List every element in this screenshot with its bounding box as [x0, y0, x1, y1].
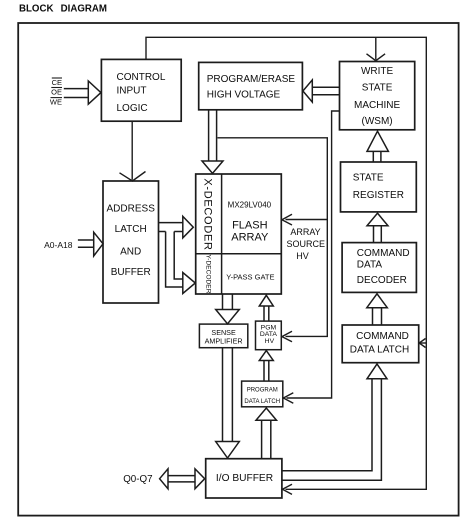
svg-text:HV: HV	[296, 251, 309, 261]
block SENSE AMPLIFIER	[199, 324, 247, 348]
hollow arrow ADDRESS LATCH to X-DECODER	[159, 216, 194, 238]
hollow arrow SENSE AMPLIFIER down to I/O BUFFER	[216, 348, 240, 458]
block ADDRESS LATCH AND BUFFER	[103, 181, 159, 303]
svg-text:Y-DECODER: Y-DECODER	[204, 255, 211, 294]
svg-text:PROGRAM/ERASE: PROGRAM/ERASE	[207, 74, 296, 85]
svg-text:ADDRESS: ADDRESS	[107, 204, 156, 215]
svg-text:WE: WE	[50, 98, 62, 107]
svg-text:HIGH VOLTAGE: HIGH VOLTAGE	[207, 89, 281, 100]
svg-text:COMMAND: COMMAND	[356, 331, 409, 342]
svg-text:SOURCE: SOURCE	[287, 239, 326, 249]
svg-text:MACHINE: MACHINE	[354, 100, 400, 111]
svg-text:COMMAND: COMMAND	[357, 248, 410, 259]
svg-text:LOGIC: LOGIC	[117, 103, 148, 114]
svg-text:DATA: DATA	[357, 260, 383, 271]
hollow arrow PROGRAM DATA LATCH up to PGM DATA HV	[259, 351, 273, 382]
hollow arrow bus I/O BUFFER right up to COMMAND DATA LATCH	[282, 364, 387, 480]
input labels CE OE WE with overbars	[50, 78, 62, 107]
svg-text:PROGRAM: PROGRAM	[247, 388, 278, 394]
svg-text:BUFFER: BUFFER	[111, 267, 151, 278]
svg-text:MX29LV040: MX29LV040	[228, 200, 272, 209]
svg-text:X-DECODER: X-DECODER	[202, 178, 214, 250]
svg-text:ARRAY: ARRAY	[231, 232, 269, 244]
label Y-PASS GATE	[226, 272, 274, 281]
svg-text:DECODER: DECODER	[357, 275, 407, 286]
block flash array composite (X-DECODER / FLASH ARRAY / Y-DECODER / Y-PASS GATE)	[196, 174, 282, 294]
hollow arrow Y-PASS GATE down to SENSE AMPLIFIER	[216, 294, 240, 324]
svg-text:HV: HV	[265, 338, 275, 345]
svg-text:STATE: STATE	[353, 172, 384, 183]
wire CONTROL INPUT LOGIC bottom to ADDRESS LATCH top	[120, 121, 146, 181]
svg-text:WRITE: WRITE	[361, 66, 394, 77]
svg-text:DATA LATCH: DATA LATCH	[350, 344, 409, 355]
svg-text:AND: AND	[120, 247, 141, 258]
label MX29LV040	[228, 200, 272, 209]
label X-DECODER (vertical)	[202, 178, 214, 250]
hollow arrow STATE REGISTER up to WSM	[367, 131, 388, 162]
block PGM DATA HV	[256, 321, 282, 350]
wire ARRAY SOURCE HV from PROGRAM/ERASE HV down to flash array and PGM DATA HV	[218, 138, 328, 342]
block CONTROL INPUT LOGIC	[101, 59, 181, 121]
wire branch into COMMAND DATA LATCH right edge	[419, 339, 426, 348]
label A0-A18	[44, 240, 73, 250]
svg-text:(WSM): (WSM)	[362, 116, 393, 127]
svg-text:AMPLIFIER: AMPLIFIER	[205, 337, 243, 346]
svg-text:CONTROL: CONTROL	[117, 72, 166, 83]
svg-text:BLOCK DIAGRAM: BLOCK DIAGRAM	[19, 3, 107, 14]
block WRITE STATE MACHINE (WSM)	[340, 62, 415, 130]
wire from CONTROL INPUT LOGIC top to WSM and down right side to I/O BUFFER	[146, 37, 426, 494]
hollow arrow PGM DATA HV up to flash array	[259, 295, 273, 321]
hollow arrow I/O BUFFER up to PROGRAM DATA LATCH	[256, 408, 277, 459]
label ARRAY SOURCE HV	[287, 227, 326, 261]
block COMMAND DATA DECODER	[342, 243, 416, 293]
svg-text:A0-A18: A0-A18	[44, 240, 73, 250]
hollow double arrow Q0-Q7 to I/O BUFFER	[160, 469, 205, 489]
label Y-DECODER (vertical)	[204, 255, 211, 294]
block STATE REGISTER	[341, 162, 417, 212]
title BLOCK DIAGRAM	[19, 3, 107, 14]
hollow arrow branch down to Y-DECODER	[166, 232, 196, 294]
block PROGRAM/ERASE HIGH VOLTAGE	[199, 62, 303, 109]
svg-text:INPUT: INPUT	[117, 86, 147, 97]
block I/O BUFFER	[206, 459, 282, 498]
svg-text:FLASH: FLASH	[232, 219, 268, 231]
svg-text:Y-PASS GATE: Y-PASS GATE	[226, 272, 274, 281]
svg-text:I/O BUFFER: I/O BUFFER	[216, 473, 273, 484]
wire WSM left edge down to PROGRAM DATA LATCH	[283, 111, 339, 403]
svg-text:LATCH: LATCH	[115, 224, 147, 235]
svg-text:OE: OE	[51, 88, 62, 97]
label FLASH ARRAY	[231, 219, 269, 243]
block COMMAND DATA LATCH	[342, 325, 419, 363]
svg-text:CE: CE	[52, 78, 62, 87]
hollow arrow COMMAND DATA LATCH up to COMMAND DATA DECODER	[367, 294, 388, 325]
svg-text:DATA LATCH: DATA LATCH	[244, 399, 280, 405]
hollow arrow CE/OE/WE into CONTROL INPUT LOGIC	[64, 81, 101, 104]
hollow arrow COMMAND DATA DECODER up to STATE REGISTER	[367, 213, 388, 242]
svg-text:Q0-Q7: Q0-Q7	[123, 474, 152, 485]
block PROGRAM DATA LATCH	[242, 381, 283, 407]
hollow arrow PROGRAM/ERASE HV down to X-DECODER	[202, 110, 223, 173]
svg-text:ARRAY: ARRAY	[290, 227, 320, 237]
hollow arrow WSM to PROGRAM/ERASE HIGH VOLTAGE	[303, 80, 340, 102]
hollow arrow A0-A18 into ADDRESS LATCH	[78, 232, 103, 256]
wire branch into WSM top	[367, 37, 386, 60]
svg-text:STATE: STATE	[362, 83, 393, 94]
label Q0-Q7	[123, 474, 152, 485]
svg-text:REGISTER: REGISTER	[353, 190, 404, 201]
